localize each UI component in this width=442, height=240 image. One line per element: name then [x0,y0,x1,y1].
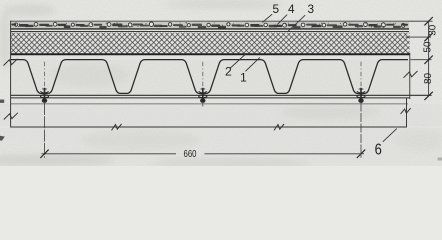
svg-text:2: 2 [225,65,232,79]
fastener F1 shank [44,88,46,102]
deck bottom line lower [11,97,410,99]
right break squiggle [404,71,418,78]
fastener F1 cross tick [42,88,47,90]
scan smudge left edge upper [0,100,4,103]
svg-text:4: 4 [288,2,295,16]
deck bottom line upper [11,94,432,96]
left break squiggle lower [4,113,18,120]
leader 6 [383,129,397,142]
paper scan noise [0,0,442,166]
right dimension vertical line [428,21,430,96]
steel deck profile [11,60,408,94]
membrane line [11,31,409,33]
screed dark smudge texture [19,24,29,27]
tick at y37.1 [424,33,432,41]
fastener F2 shank [202,88,204,102]
scan smudge left edge lower [0,136,5,141]
fastener F3 centerline above [360,62,362,88]
faint lower line [11,103,408,105]
tick at y95.9 [424,92,432,100]
fastener F1 cup [40,91,48,93]
fastener F2 washer [199,95,207,98]
bottom dimension line right part [205,153,365,155]
tick at y21.2 [424,17,432,25]
fastener F1 washer [40,95,48,98]
break squiggle at riser top [401,108,411,114]
concrete crosshatch layer [11,33,410,54]
svg-text:80: 80 [423,72,434,84]
crosshatch bottom thick line [11,53,410,55]
bottom dimension line left part [42,153,177,155]
fastener F3 shank [360,88,362,102]
bottom tick right [357,150,365,158]
left break line [10,21,12,128]
leader 3 [288,15,305,31]
svg-text:6: 6 [375,142,382,159]
fastener F2 cross tick [201,88,206,90]
extension line below F3 [360,103,362,158]
svg-text:30: 30 [428,24,439,36]
scan tone zones [10,60,410,94]
svg-text:1: 1 [240,71,247,85]
fastener F2 cup [199,91,207,93]
screed small dots [18,23,401,28]
fastener F3 washer [357,95,365,98]
svg-text:5: 5 [273,2,280,16]
leader 1 [245,57,260,71]
fastener F3 cup [357,91,365,93]
svg-text:660: 660 [184,149,197,160]
fastener F1 centerline above [44,62,46,88]
fastener F2 centerline below [202,103,204,107]
bottom tick left [40,150,48,158]
top surface line [11,20,433,22]
leader 4 [277,15,287,25]
bottom continuation line with end riser [11,98,407,127]
svg-text:50: 50 [422,41,433,53]
left break squiggle upper [4,59,18,66]
tick at y59.7 [424,56,432,64]
paper background [0,0,442,166]
fastener F3 cross tick [359,88,364,90]
break squiggle on bottom line at x115 [112,124,122,130]
screed aggregate circles [14,22,405,27]
screed bottom line [11,28,409,30]
extension line y59.6 [411,59,432,61]
leader 2 [230,53,247,68]
extension line below F1 [44,103,46,158]
right break line [409,53,411,99]
leader 5 [262,14,272,22]
scan smudge bottom right corner [438,158,442,161]
screed band base [11,22,409,29]
fastener F2 centerline above [202,62,204,88]
svg-text:3: 3 [308,2,315,16]
break squiggle on bottom line at x278 [274,124,284,130]
extension line y37 [406,36,432,38]
scan mottling blobs [0,0,442,167]
